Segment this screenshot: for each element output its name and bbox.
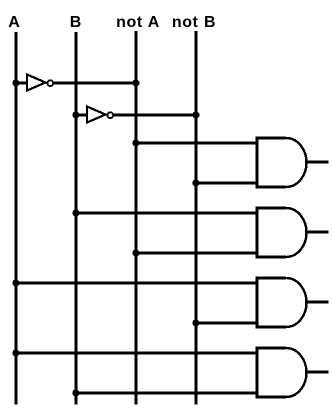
wire not B vertical <box>195 31 198 405</box>
wire B vertical <box>75 32 78 405</box>
wire A to U5 top input <box>16 282 257 285</box>
junction dot on A for U5 top input <box>12 279 19 286</box>
junction dot on B for U4 top input <box>72 209 79 216</box>
AND gate U5 body <box>256 277 307 329</box>
wire not A vertical <box>135 31 138 405</box>
AND gate U4 body <box>256 207 307 259</box>
inverter U1 triangle <box>27 75 46 91</box>
wire not B to U3 bottom input <box>196 182 257 185</box>
inverter U2 bubble <box>107 112 113 118</box>
node not B label <box>172 14 216 31</box>
svg-text:not B: not B <box>172 14 216 31</box>
junction dot on not B at U2 output <box>192 111 199 118</box>
AND gate U6 body <box>256 347 307 399</box>
junction dot on A at inverter U1 input <box>12 79 19 86</box>
wire A vertical <box>15 32 18 405</box>
wire U3 output <box>305 161 329 164</box>
wire not A to U3 top input <box>136 142 257 145</box>
node B label <box>70 14 82 31</box>
junction dot on A for U6 top input <box>12 349 19 356</box>
svg-text:B: B <box>70 14 82 31</box>
junction dot on B at inverter U2 input <box>72 111 79 118</box>
wire A to U6 top input <box>16 352 257 355</box>
wire U2 output to not B <box>114 114 197 117</box>
node A label <box>8 14 20 31</box>
wire B to U6 bottom input <box>76 392 257 395</box>
wire U1 output to not A <box>54 82 137 85</box>
junction dot on not A for U3 top input <box>132 139 139 146</box>
wire U2 input stub <box>76 114 87 117</box>
svg-text:not A: not A <box>116 14 160 31</box>
junction dot on not A for U4 bottom input <box>132 249 139 256</box>
wire U1 input stub <box>16 82 27 85</box>
node not A label <box>116 14 160 31</box>
wire B to U4 top input <box>76 212 257 215</box>
junction dot on not B for U3 bottom input <box>192 179 199 186</box>
wire U5 output <box>305 301 329 304</box>
wire U4 output <box>305 231 329 234</box>
junction dot on not B for U5 bottom input <box>192 319 199 326</box>
junction dot on B for U6 bottom input <box>72 389 79 396</box>
svg-text:A: A <box>8 14 20 31</box>
inverter U1 bubble <box>47 80 53 86</box>
wire not A to U4 bottom input <box>136 252 257 255</box>
inverter U2 triangle <box>87 107 106 123</box>
junction dot on not A at U1 output <box>132 79 139 86</box>
wire not B to U5 bottom input <box>196 322 257 325</box>
wire U6 output <box>305 371 329 374</box>
AND gate U3 body <box>256 137 307 189</box>
